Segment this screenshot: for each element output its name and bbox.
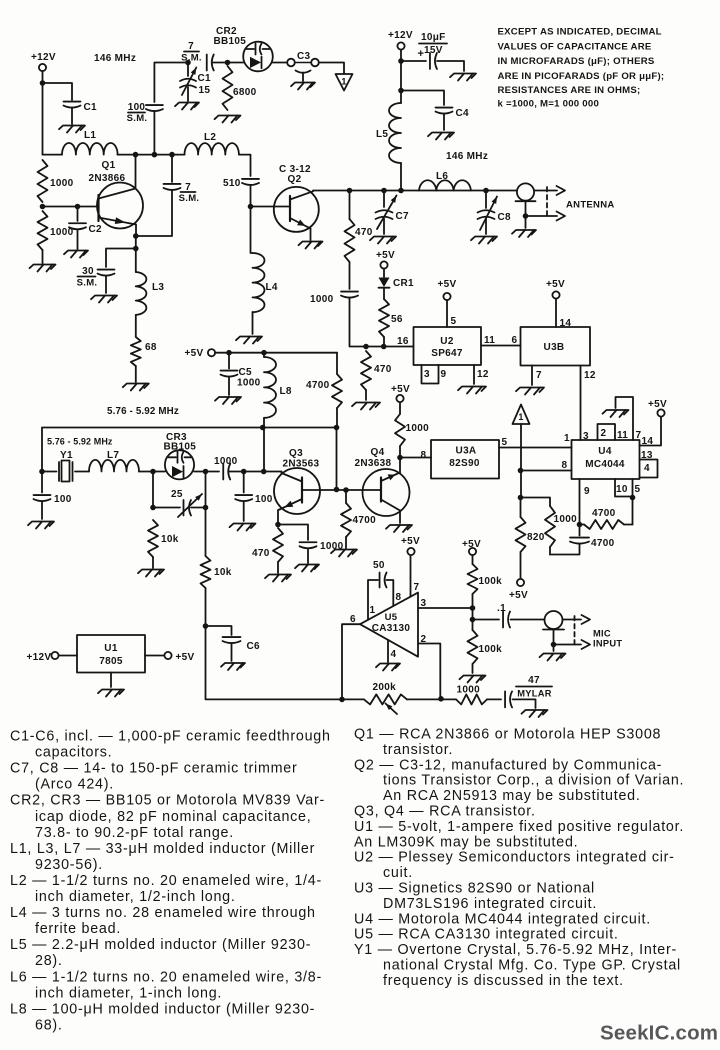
wire 1000 to 47: [487, 698, 501, 700]
svg-text:820: 820: [527, 532, 545, 543]
svg-text:SeekIC.com: SeekIC.com: [600, 1022, 718, 1045]
svg-text:1: 1: [341, 77, 346, 87]
wire 68 to ground: [135, 366, 137, 382]
svg-text:national Crystal Mfg. Co. Type: national Crystal Mfg. Co. Type GP. Cryst…: [383, 958, 681, 974]
pin2 wire of U5: [418, 634, 440, 699]
wire to 30SM cap: [106, 249, 136, 268]
resistor 4700 (+5V): [306, 353, 342, 408]
junction 820/1000 node: [518, 495, 524, 501]
capacitor 510: [223, 178, 259, 189]
wire Q2 collector line: [313, 190, 517, 192]
dashed mic link: [574, 616, 576, 645]
wire Q1 collector: [135, 155, 137, 189]
wire CR3 to 1000 cap: [194, 471, 219, 473]
resistor 1000 (to filter): [521, 498, 578, 555]
ground under 10k: [138, 570, 164, 577]
svg-text:10k: 10k: [214, 567, 232, 578]
svg-text:U1: U1: [104, 643, 118, 654]
wire 470 to ground: [352, 390, 380, 410]
svg-text:1: 1: [518, 412, 523, 422]
svg-text:SP647: SP647: [431, 348, 463, 359]
svg-text:CR1: CR1: [393, 278, 414, 289]
svg-text:tions Transistor Corp., a divi: tions Transistor Corp., a division of Va…: [383, 773, 684, 789]
svg-text:An LM309K may be substituted.: An LM309K may be substituted.: [354, 834, 578, 850]
svg-text:ferrite bead.: ferrite bead.: [35, 921, 121, 937]
wire pin5 down: [632, 498, 634, 525]
svg-text:5.76 - 5.92 MHz: 5.76 - 5.92 MHz: [47, 437, 113, 447]
svg-text:+5V: +5V: [509, 590, 528, 601]
junction +12V/C1: [40, 80, 46, 86]
svg-text:U3B: U3B: [544, 342, 565, 353]
svg-text:C1: C1: [198, 73, 212, 84]
ground under mic: [540, 654, 566, 661]
capacitor 7 S.M. (emitter): [164, 182, 200, 204]
junction pin6/bottom: [339, 697, 345, 703]
svg-text:(Arco 424).: (Arco 424).: [35, 777, 114, 793]
svg-text:100: 100: [128, 102, 146, 113]
junction top/C1 trimmer: [185, 60, 191, 66]
svg-text:C6: C6: [247, 641, 261, 652]
svg-text:100: 100: [54, 494, 72, 505]
junction 510/Q2/L4: [248, 204, 254, 210]
IC U1 7805: [77, 635, 145, 673]
transistor Q4 2N3638: [355, 447, 410, 516]
resistor 68: [131, 337, 157, 366]
varicap CR2 BB105: [214, 26, 273, 71]
svg-text:L5: L5: [376, 129, 388, 140]
pin2 box of U4: [598, 424, 616, 440]
svg-text:L5 — 2.2-μH molded inductor (M: L5 — 2.2-μH molded inductor (Miller 9230…: [10, 937, 311, 953]
wire L7 to CR3: [139, 471, 165, 473]
junction 470 vert: [363, 344, 369, 350]
wire 7SM cap up: [171, 155, 173, 182]
svg-text:U2: U2: [440, 336, 454, 347]
wire 510 to Q2 base: [250, 186, 252, 207]
wire emitter to 7SM cap: [136, 191, 172, 237]
wire Q4 node to U3A pin8: [400, 450, 431, 461]
junction CR1/56: [381, 344, 387, 350]
junction L1/100SM: [152, 152, 158, 158]
svg-text:25: 25: [171, 489, 183, 500]
svg-text:146 MHz: 146 MHz: [94, 53, 136, 64]
label ANTENNA: [566, 200, 615, 211]
junction Q3 base/tie: [334, 487, 340, 493]
wire L1 left stub: [43, 154, 63, 156]
node +5V (Q4): [391, 384, 410, 402]
node +12V (U1): [27, 652, 78, 663]
feedthrough antenna: [516, 183, 536, 216]
svg-text:100: 100: [255, 494, 273, 505]
ground under C5: [215, 397, 241, 404]
junction emitter/30SM: [133, 246, 139, 252]
junction output/cap: [470, 617, 476, 623]
wire U3A pin5 to U4 pin1: [499, 433, 572, 448]
capacitor C4: [436, 108, 470, 119]
svg-text:CA3130: CA3130: [372, 623, 411, 634]
junction bus/L8: [260, 425, 266, 431]
resistor 1000 (Q4): [395, 402, 429, 458]
svg-text:k =1000, M=1 000 000: k =1000, M=1 000 000: [498, 99, 600, 110]
junction C5: [226, 350, 232, 356]
wire +12V down: [400, 50, 402, 103]
svg-text:1000: 1000: [554, 514, 578, 525]
svg-text:An RCA 2N5913 may be substitut: An RCA 2N5913 may be substituted.: [383, 788, 641, 804]
inductor L4: [253, 253, 278, 312]
ground under C7: [370, 237, 396, 244]
wire L5 bottom: [400, 163, 402, 191]
node +12V supply (right): [388, 30, 413, 50]
ground under L4: [236, 337, 262, 344]
wire L3 to 68: [135, 315, 137, 337]
wire triangle down: [520, 424, 522, 498]
svg-text:+5V: +5V: [391, 384, 410, 395]
connection triangle 1 (top): [336, 74, 353, 91]
wire C4 branch: [401, 91, 444, 106]
resistor 470 (Q2): [345, 191, 373, 263]
svg-text:U1 — 5-volt, 1-ampere fixed po: U1 — 5-volt, 1-ampere fixed positive reg…: [354, 819, 684, 835]
wire L8 down: [263, 418, 265, 472]
wire bottom left segment: [342, 698, 364, 700]
junction L1/Q1 collector: [133, 152, 139, 158]
wire varicap bus: [42, 428, 337, 472]
svg-text:L2: L2: [204, 132, 216, 143]
junction osc/L8: [261, 469, 267, 475]
svg-text:Q3, Q4 — RCA transistor.: Q3, Q4 — RCA transistor.: [354, 804, 536, 820]
svg-text:14: 14: [642, 436, 654, 447]
label 5.76-5.92 MHz (small): [47, 437, 113, 447]
svg-text:capacitors.: capacitors.: [35, 745, 112, 761]
wire L2 to 510: [239, 155, 251, 176]
svg-text:IN MICROFARADS (μF); OTHERS: IN MICROFARADS (μF); OTHERS: [498, 56, 655, 67]
junction L1/7SM cap: [169, 152, 175, 158]
pin10/5 of U4: [615, 479, 641, 497]
wire CR2 to C3: [273, 62, 288, 64]
svg-text:CR2, CR3 — BB105 or Motorola M: CR2, CR3 — BB105 or Motorola MV839 Var-: [10, 793, 325, 809]
svg-text:9: 9: [584, 486, 590, 497]
svg-text:7: 7: [414, 582, 420, 593]
IC U3B: [521, 327, 591, 366]
svg-text:12: 12: [477, 369, 489, 380]
potentiometer 200k: [364, 682, 407, 714]
node +5V (U3B): [546, 279, 565, 299]
ground under C3: [291, 83, 315, 90]
trimmer C7: [376, 191, 410, 235]
svg-text:200k: 200k: [373, 682, 397, 693]
junction CR2/6800: [225, 60, 231, 66]
svg-text:frequency is discussed in the: frequency is discussed in the text.: [383, 973, 624, 989]
svg-text:inch diameter, 1-inch long.: inch diameter, 1-inch long.: [35, 985, 222, 1001]
junction Q4 emitter node: [397, 455, 403, 461]
junction L8 top: [261, 350, 267, 356]
resistor 1000 (af): [456, 685, 487, 705]
inductor L8: [264, 353, 292, 418]
svg-text:+5V: +5V: [648, 399, 667, 410]
svg-text:L4: L4: [266, 282, 278, 293]
node +5V (U2): [438, 279, 457, 300]
junction 1000/100: [241, 469, 247, 475]
resistor 1000 (upper left): [38, 160, 74, 202]
capacitor 1000 (feedthrough): [310, 292, 358, 305]
svg-text:+12V: +12V: [31, 52, 56, 63]
resistor 100k (lower): [468, 620, 503, 674]
svg-text:VALUES OF CAPACITANCE ARE: VALUES OF CAPACITANCE ARE: [498, 41, 652, 52]
ground under 68: [123, 384, 149, 391]
capacitor C6: [206, 626, 261, 661]
resistor 6800: [223, 66, 257, 110]
ground under C4: [428, 133, 454, 140]
capacitor C2: [69, 207, 102, 250]
wire antenna ground: [525, 216, 527, 228]
svg-text:10: 10: [616, 484, 628, 495]
wire base Q2: [251, 206, 291, 208]
svg-text:15V: 15V: [424, 45, 443, 56]
ground under C1 trimmer: [175, 103, 199, 110]
junction L7/10k: [150, 469, 156, 475]
svg-text:8: 8: [396, 592, 402, 603]
capacitor 100 (crystal): [34, 472, 72, 520]
svg-text:11: 11: [617, 430, 628, 441]
ground under 1000 Q3: [295, 565, 319, 572]
svg-text:7: 7: [188, 41, 194, 52]
svg-text:S.M.: S.M.: [127, 113, 148, 124]
svg-text:1: 1: [564, 433, 570, 444]
transistor Q3 2N3563: [274, 448, 320, 514]
pin14 of U4 to +5V: [640, 399, 668, 447]
pins 3/9 of U2: [422, 365, 447, 384]
svg-text:U3A: U3A: [456, 446, 477, 457]
trimmer 25: [153, 489, 206, 517]
wire 100SM top corner: [154, 63, 188, 103]
capacitor 7 S.M. (top): [181, 41, 214, 71]
capacitor 10uF 15V: [401, 32, 464, 71]
pin7 of U3B to ground: [516, 366, 544, 395]
inductor L3: [136, 272, 165, 315]
inductor L5: [376, 103, 401, 163]
svg-text:+5V: +5V: [185, 348, 204, 359]
junction pin8 node: [518, 468, 524, 474]
capacitor 50 feedback: [368, 560, 402, 620]
svg-text:4700: 4700: [591, 538, 615, 549]
ground under 47: [522, 710, 548, 717]
capacitor C1: [64, 102, 98, 113]
IC U3A 82S90: [431, 440, 499, 479]
svg-text:1000: 1000: [214, 456, 238, 467]
svg-text:transistor.: transistor.: [383, 742, 453, 758]
parts list left column: [10, 729, 331, 1034]
svg-text:470: 470: [252, 548, 270, 559]
wire 7SM to CR2 junction: [213, 62, 244, 64]
svg-text:MYLAR: MYLAR: [517, 689, 552, 699]
resistor 56: [379, 299, 403, 337]
wire +12V down to L1 line: [42, 71, 44, 155]
svg-text:9: 9: [441, 369, 447, 380]
label 146 MHz (top): [94, 53, 136, 64]
junction C8 tap: [483, 188, 489, 194]
ground under 100k: [460, 676, 486, 683]
trimmer C8: [478, 191, 512, 235]
ground under 6800: [215, 116, 241, 123]
svg-text:L4 — 3 turns no. 28 enameled w: L4 — 3 turns no. 28 enameled wire throug…: [10, 905, 316, 921]
wire pot to junction: [407, 698, 456, 700]
svg-text:Q3: Q3: [289, 448, 303, 459]
capacitor 30 S.M.: [77, 266, 115, 289]
wire Q4 emitter up: [399, 458, 401, 473]
wire +5V to U2 pin5: [447, 300, 457, 327]
svg-text:68).: 68).: [35, 1017, 63, 1033]
wire C1 to ground: [71, 108, 73, 124]
svg-text:S.M.: S.M.: [77, 278, 98, 289]
svg-text:DM73LS196 integrated circuit.: DM73LS196 integrated circuit.: [383, 896, 597, 912]
svg-text:Q2: Q2: [288, 174, 302, 185]
wire base tie: [336, 428, 338, 490]
wire +5V rail: [215, 352, 337, 354]
ground under Q2: [299, 242, 323, 249]
junction L5 bottom: [398, 188, 404, 194]
svg-text:+: +: [418, 48, 425, 60]
svg-text:4: 4: [644, 463, 650, 474]
svg-text:2: 2: [601, 428, 607, 439]
junction 470 tap: [347, 188, 353, 194]
svg-text:+12V: +12V: [27, 652, 52, 663]
junction Q3 base/4700: [343, 487, 349, 493]
pin13/4 box of U4: [640, 450, 658, 478]
feedthrough mic: [543, 611, 564, 645]
trimmer C1 15: [180, 63, 211, 102]
svg-text:EXCEPT AS INDICATED, DECIMAL: EXCEPT AS INDICATED, DECIMAL: [498, 27, 662, 38]
pin7 of U5: [411, 555, 420, 597]
junction pin9/filter: [577, 522, 583, 528]
svg-text:+5V: +5V: [176, 652, 195, 663]
svg-text:5.76 - 5.92 MHz: 5.76 - 5.92 MHz: [107, 406, 179, 417]
wire antenna top arrow: [534, 186, 565, 195]
ground under 470: [265, 575, 291, 582]
capacitor C5 1000: [221, 353, 261, 395]
svg-text:5: 5: [451, 316, 457, 327]
svg-text:L2 — 1-1/2 turns no. 20 enamel: L2 — 1-1/2 turns no. 20 enameled wire, 1…: [10, 873, 322, 889]
svg-text:9230-56).: 9230-56).: [35, 857, 103, 873]
junction 25 left: [150, 505, 156, 511]
svg-text:C7: C7: [396, 211, 410, 222]
wire Q1 emitter: [135, 225, 137, 237]
ground under 100 osc: [230, 524, 256, 531]
node +5V (osc): [185, 348, 216, 359]
wire 56 to node: [383, 337, 385, 347]
junction pin2/bottom: [438, 696, 444, 702]
wire Q3 base: [302, 489, 381, 491]
junction pin5/4700: [630, 495, 636, 501]
junction antenna ground: [523, 213, 529, 219]
wire mod line down: [205, 508, 207, 557]
svg-text:+12V: +12V: [388, 30, 413, 41]
svg-text:+5V: +5V: [376, 250, 395, 261]
wire antenna bottom arrow: [526, 212, 566, 221]
ground under 1000: [30, 250, 56, 272]
ground under C2: [64, 251, 88, 258]
svg-text:U5 — RCA CA3130 integrated cir: U5 — RCA CA3130 integrated circuit.: [354, 927, 619, 943]
inductor L1: [62, 130, 118, 155]
ground under C6: [221, 663, 245, 670]
node +5V (U1): [145, 652, 195, 663]
wire Q2 emitter to ground: [310, 229, 312, 241]
junction Y1/100: [39, 469, 45, 475]
svg-text:47: 47: [528, 675, 540, 686]
svg-text:1000: 1000: [237, 378, 261, 389]
ground under C8: [471, 237, 497, 244]
junction mic ground: [551, 642, 557, 648]
pin6 wire of U5: [342, 614, 360, 699]
resistor 4700 (Q3 base): [341, 490, 376, 548]
resistor 470 (Q3): [252, 528, 283, 573]
wire 4700 down: [336, 408, 338, 428]
ground under C1: [59, 126, 85, 133]
capacitor .1: [473, 603, 545, 628]
connection triangle 1 (PLL): [513, 405, 530, 425]
diode CR1: [379, 269, 415, 300]
svg-text:146 MHz: 146 MHz: [446, 151, 488, 162]
wire U3B pin12 to U4 pin3: [581, 366, 596, 443]
svg-text:50: 50: [373, 560, 385, 571]
IC U4 MC4044: [572, 440, 640, 479]
pin4 of U5 to ground: [376, 640, 400, 671]
wire C3 to triangle-1: [319, 63, 344, 74]
svg-text:15: 15: [199, 85, 211, 96]
svg-text:7805: 7805: [99, 656, 123, 667]
transistor Q2 C3-12: [274, 164, 319, 232]
svg-text:icap diode, 82 pF nominal capa: icap diode, 82 pF nominal capacitance,: [35, 809, 311, 825]
junction C4: [398, 88, 404, 94]
svg-text:RESISTANCES ARE IN OHMS;: RESISTANCES ARE IN OHMS;: [498, 85, 641, 96]
svg-text:28).: 28).: [35, 953, 63, 969]
svg-text:Y1: Y1: [60, 450, 73, 461]
resistor 4700 (loop filter): [580, 508, 633, 529]
ground under 4700: [331, 550, 357, 557]
label 146 MHz (right): [446, 151, 488, 162]
svg-text:BB105: BB105: [214, 36, 247, 47]
wire 25 to osc line: [205, 472, 207, 508]
svg-text:.1: .1: [497, 603, 506, 614]
svg-text:C2: C2: [89, 224, 103, 235]
wire 470 down to 1000 cap: [349, 262, 351, 289]
junction C7 tap: [381, 188, 387, 194]
svg-text:4700: 4700: [592, 508, 616, 519]
svg-text:5: 5: [635, 484, 641, 495]
svg-text:10μF: 10μF: [421, 32, 446, 43]
note text block: [498, 27, 665, 110]
svg-text:68: 68: [145, 342, 157, 353]
wire 100SM riser: [153, 111, 155, 155]
wire 1000 cap to U2 pin16: [350, 298, 414, 347]
svg-text:6800: 6800: [233, 87, 257, 98]
wire mod line to bottom: [206, 588, 343, 699]
resistor 10k (osc): [148, 520, 179, 568]
junction 25 right: [203, 505, 209, 511]
IC U2 SP647: [414, 327, 482, 365]
svg-text:4700: 4700: [306, 380, 330, 391]
junction bus/4700: [334, 425, 340, 431]
node +12V supply (left): [31, 52, 56, 71]
svg-text:U4: U4: [598, 446, 612, 457]
svg-text:INPUT: INPUT: [593, 639, 622, 649]
svg-text:Q1: Q1: [102, 160, 116, 171]
svg-text:C1: C1: [84, 102, 98, 113]
svg-text:cuit.: cuit.: [383, 865, 413, 881]
wire to C1: [43, 83, 73, 100]
parts list right column: [354, 727, 684, 989]
svg-text:Q4: Q4: [371, 447, 385, 458]
pin3 wire of U5: [418, 598, 473, 609]
ground under antenna: [512, 230, 536, 237]
node +5V (U5): [401, 536, 420, 555]
